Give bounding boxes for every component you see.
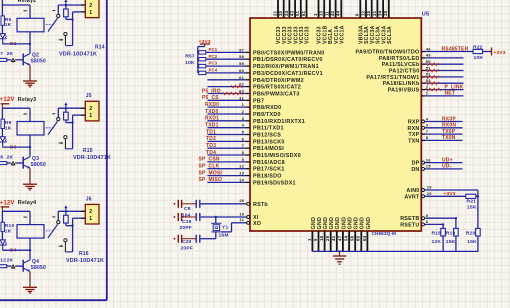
svg-text:18: 18 bbox=[319, 235, 324, 241]
wire Relay3 contact to connector bbox=[73, 115, 86, 149]
svg-text:+3V3: +3V3 bbox=[494, 50, 506, 56]
resistor R9 1K bbox=[1, 108, 12, 136]
U5 bottom pin 58 GND bbox=[350, 217, 360, 251]
svg-text:RS485TER: RS485TER bbox=[442, 46, 469, 52]
svg-text:PB2/RI0X/PWM1/TRAN1: PB2/RI0X/PWM1/TRAN1 bbox=[253, 64, 319, 70]
U5 bottom pin 29 GND bbox=[325, 217, 335, 251]
svg-text:GND: GND bbox=[348, 217, 354, 230]
LED D4 bbox=[0, 240, 17, 254]
svg-text:+12V: +12V bbox=[0, 200, 15, 206]
resistor R10 1K bbox=[1, 211, 14, 239]
svg-text:49: 49 bbox=[426, 53, 431, 58]
svg-text:8: 8 bbox=[426, 135, 429, 140]
svg-text:PB17/SCK1: PB17/SCK1 bbox=[253, 167, 285, 173]
svg-text:RXD1: RXD1 bbox=[205, 116, 219, 122]
relay Relay4 coil bbox=[17, 211, 44, 250]
svg-text:26: 26 bbox=[239, 198, 244, 203]
svg-text:PB6/PWM3/CAT3: PB6/PWM3/CAT3 bbox=[253, 92, 300, 98]
svg-text:R10: R10 bbox=[5, 223, 15, 229]
svg-text:TD4: TD4 bbox=[206, 150, 216, 156]
wire Relay4 contact to connector bbox=[73, 218, 86, 252]
svg-text:2: 2 bbox=[89, 3, 92, 9]
svg-text:Y1: Y1 bbox=[222, 225, 228, 231]
svg-text:R7: R7 bbox=[0, 51, 3, 57]
resistor R22 10K bbox=[473, 44, 492, 61]
transistor Q4 S8050 bbox=[23, 250, 46, 272]
svg-text:2: 2 bbox=[89, 106, 92, 112]
LED D2 bbox=[0, 34, 17, 48]
wire / node TD1 (left row 13) bbox=[206, 129, 245, 135]
U5 top pin 21 VCC33 bbox=[272, 0, 282, 44]
power +12V arrow (Relay2 contact) bbox=[64, 0, 67, 5]
wire GND bus bbox=[312, 250, 478, 252]
U5 top pin 1 VCC33 bbox=[313, 0, 323, 44]
svg-text:DP: DP bbox=[412, 161, 420, 167]
relay Relay4 contact bbox=[46, 211, 73, 252]
wire Relay4 bottom rail bbox=[2, 249, 31, 251]
wire / node SP_CSN (left row 17) bbox=[199, 157, 246, 163]
relay Relay4 label bbox=[18, 200, 37, 206]
wire / node SP_CLK (left row 18) bbox=[199, 164, 246, 170]
svg-text:16: 16 bbox=[426, 157, 431, 162]
svg-text:PA12/CTS0: PA12/CTS0 bbox=[389, 69, 420, 75]
svg-text:R15: R15 bbox=[83, 148, 93, 154]
svg-text:13: 13 bbox=[319, 10, 324, 16]
op-amp U5 CH563Q-M MCU body bbox=[250, 11, 429, 236]
svg-text:TXN: TXN bbox=[408, 138, 419, 144]
svg-text:1: 1 bbox=[89, 216, 92, 222]
U5 bottom pin 1 GND bbox=[307, 217, 317, 251]
ground (emitter of Q4) bbox=[23, 272, 37, 294]
svg-text:CH563Q-M: CH563Q-M bbox=[372, 231, 397, 236]
wire / node TD2 (left row 14) bbox=[206, 136, 245, 142]
svg-text:29: 29 bbox=[325, 235, 330, 241]
svg-text:Relay2: Relay2 bbox=[18, 0, 37, 4]
relay Relay2 contact bbox=[46, 5, 73, 46]
capacitor C8 104 (reset) bbox=[174, 200, 246, 219]
varistor R15 VDR-10D471K bbox=[64, 108, 112, 161]
svg-text:59: 59 bbox=[239, 61, 244, 66]
U5 right pin 53 PA18/ELINKb bbox=[383, 78, 464, 87]
svg-text:1: 1 bbox=[242, 102, 245, 107]
U5 top pin 11 BG1A bbox=[324, 0, 334, 44]
svg-text:2: 2 bbox=[89, 209, 92, 215]
svg-text:R57: R57 bbox=[185, 54, 195, 60]
svg-text:9: 9 bbox=[242, 157, 245, 162]
U5 bottom pin 18 GND bbox=[319, 217, 329, 251]
wire / node PB5 (left row 6) bbox=[208, 85, 246, 88]
U5 right pin 4 RXP net RX0P bbox=[408, 116, 463, 125]
svg-text:15: 15 bbox=[426, 164, 431, 169]
U5 top pin 6 VBG3A bbox=[355, 0, 365, 44]
svg-text:RXN: RXN bbox=[408, 126, 420, 132]
svg-text:5: 5 bbox=[426, 213, 429, 218]
U5 right pin 3 RXN net RX0N bbox=[408, 123, 463, 132]
svg-text:VDR-10D471K: VDR-10D471K bbox=[66, 258, 104, 264]
svg-text:19: 19 bbox=[427, 184, 432, 189]
relay Relay2 contact common rail wire bbox=[58, 4, 85, 6]
svg-text:RXD0: RXD0 bbox=[205, 102, 219, 108]
svg-text:1: 1 bbox=[426, 91, 429, 96]
svg-text:TXD1: TXD1 bbox=[205, 123, 219, 129]
svg-text:PB16/ADC8: PB16/ADC8 bbox=[253, 160, 285, 166]
svg-text:VCC33: VCC33 bbox=[305, 26, 311, 44]
resistor R5 1K bbox=[1, 5, 12, 33]
U5 top pin 38 SCL3A bbox=[383, 0, 393, 44]
svg-text:3: 3 bbox=[426, 123, 429, 128]
U5 left pin 62 PB5 bbox=[239, 82, 301, 91]
svg-text:TX0N: TX0N bbox=[442, 135, 456, 141]
U5 left pin 63 PB6 bbox=[239, 89, 299, 98]
resistor R12 2K (base) bbox=[0, 258, 23, 269]
svg-text:47: 47 bbox=[337, 235, 342, 241]
U5 top pin 34 VCC3A bbox=[378, 0, 388, 44]
resistor R20 15K bbox=[466, 228, 480, 251]
U5 top pin 31 SCL3A bbox=[372, 0, 382, 44]
svg-text:DN: DN bbox=[411, 167, 419, 173]
svg-text:1: 1 bbox=[307, 238, 312, 241]
svg-text:31: 31 bbox=[372, 10, 377, 16]
U5 right pin 50 PA11/SLVCEb bbox=[382, 59, 464, 68]
crystal Y1 16M bbox=[211, 217, 228, 239]
svg-text:P5_IRQ: P5_IRQ bbox=[202, 88, 221, 94]
svg-text:SP_CSN: SP_CSN bbox=[199, 157, 220, 163]
svg-text:R8: R8 bbox=[0, 154, 3, 160]
svg-text:4: 4 bbox=[426, 116, 429, 121]
svg-text:PB9/TXD0: PB9/TXD0 bbox=[253, 112, 281, 118]
U5 left pin 9 PB16 bbox=[242, 157, 285, 166]
svg-text:PB3/DCD0X/CAT1/RECV1: PB3/DCD0X/CAT1/RECV1 bbox=[253, 71, 323, 77]
svg-text:R19: R19 bbox=[446, 231, 456, 237]
svg-text:60: 60 bbox=[239, 68, 244, 73]
svg-text:7: 7 bbox=[242, 143, 245, 148]
U5 right pin 6 RSETU bbox=[400, 219, 444, 228]
svg-text:UD-: UD- bbox=[442, 164, 452, 170]
power +12V arrow (Relay4 contact) bbox=[64, 205, 67, 211]
wire / node TXD0 (left row 10) bbox=[205, 109, 245, 115]
U5 left pin 3 PB10 bbox=[242, 116, 305, 125]
U5 left pin 14 PB19 bbox=[239, 177, 296, 186]
svg-text:46: 46 bbox=[426, 46, 431, 51]
svg-text:PB18/SDO: PB18/SDO bbox=[253, 174, 282, 180]
U5 top pin 30 VCC33 bbox=[278, 0, 288, 44]
U5 bottom pin 54 GND bbox=[344, 217, 354, 251]
U5 right pin 51 PA12/CTS0 bbox=[389, 65, 464, 74]
connector J (Relay2) bbox=[81, 0, 99, 18]
U5 bottom pin 60 GND bbox=[356, 217, 366, 251]
power +12V port bbox=[0, 97, 15, 108]
relay Relay3 contact common rail wire bbox=[58, 107, 85, 109]
svg-text:GND: GND bbox=[366, 217, 372, 230]
relay Relay4 contact common rail wire bbox=[58, 210, 85, 212]
svg-text:PC2: PC2 bbox=[209, 54, 218, 59]
svg-text:2K: 2K bbox=[7, 154, 14, 160]
ground (emitter of Q2) bbox=[23, 65, 37, 87]
U5 left pin 58 PB1 bbox=[239, 54, 322, 63]
svg-text:15K: 15K bbox=[467, 205, 477, 211]
svg-text:S8050: S8050 bbox=[31, 265, 46, 271]
U5 right pin 8 TXN net TX0N bbox=[408, 135, 462, 144]
svg-text:NET: NET bbox=[445, 91, 456, 97]
capacitor C19 20PF bbox=[174, 213, 246, 231]
svg-text:TD2: TD2 bbox=[206, 136, 216, 142]
svg-text:51: 51 bbox=[295, 10, 300, 16]
svg-text:44: 44 bbox=[336, 10, 341, 16]
svg-text:PB4/DTR0X/PWM2: PB4/DTR0X/PWM2 bbox=[253, 78, 304, 84]
svg-text:TD1: TD1 bbox=[206, 129, 216, 135]
svg-text:GND: GND bbox=[354, 217, 360, 230]
U5 right pin 1 NC bbox=[421, 91, 463, 97]
svg-text:11: 11 bbox=[324, 11, 329, 16]
svg-text:SP_MISO: SP_MISO bbox=[199, 177, 223, 183]
wire / node P5_CS (left row 8) bbox=[202, 95, 245, 101]
svg-text:PA19/VBUS: PA19/VBUS bbox=[388, 88, 420, 94]
U5 left pin 12 PB17 bbox=[239, 164, 284, 173]
power +12V port bbox=[0, 200, 15, 211]
svg-text:TXD0: TXD0 bbox=[205, 109, 219, 115]
svg-text:15K: 15K bbox=[467, 239, 477, 245]
sheet border vertical line bbox=[106, 0, 108, 300]
wire Relay2 contact to connector bbox=[73, 12, 86, 46]
svg-text:64: 64 bbox=[362, 235, 367, 241]
U5 top pin 51 VCC33 bbox=[295, 0, 305, 44]
svg-text:6: 6 bbox=[426, 219, 429, 224]
svg-text:7: 7 bbox=[426, 129, 429, 134]
U5 right pin 2 PA19/VBUS bbox=[388, 84, 464, 93]
svg-text:RSETB: RSETB bbox=[400, 216, 419, 222]
svg-text:+3V3: +3V3 bbox=[444, 191, 456, 197]
U5 bottom pin 64 GND bbox=[362, 217, 372, 251]
svg-text:Relay3: Relay3 bbox=[18, 97, 37, 103]
svg-text:PB11/TXD1: PB11/TXD1 bbox=[253, 126, 284, 132]
svg-text:AVRT: AVRT bbox=[404, 194, 420, 200]
svg-text:61: 61 bbox=[301, 10, 306, 16]
svg-text:PB1/DSR0X/CAT0/RECV0: PB1/DSR0X/CAT0/RECV0 bbox=[253, 57, 323, 63]
svg-text:J5: J5 bbox=[86, 93, 92, 99]
resistor R7 2K (base) bbox=[0, 51, 23, 62]
svg-text:C19: C19 bbox=[182, 219, 192, 225]
svg-text:P_LINK: P_LINK bbox=[445, 84, 464, 90]
svg-text:SP_MOSI: SP_MOSI bbox=[199, 170, 223, 176]
svg-text:PB19/SDI/SDX1: PB19/SDI/SDX1 bbox=[253, 180, 296, 186]
svg-text:TX0P: TX0P bbox=[442, 129, 456, 135]
svg-text:C8: C8 bbox=[184, 206, 191, 212]
U5 left pin 59 PB2 bbox=[239, 61, 319, 70]
U5 right pin 46 PA9/DTR0/TNOW0/TDO bbox=[356, 46, 474, 55]
resistor R57.2 element + wire PC2 bbox=[199, 54, 246, 61]
wire / node RXD0 (left row 9) bbox=[205, 102, 245, 108]
svg-text:R22: R22 bbox=[473, 44, 483, 50]
relay Relay2 label bbox=[18, 0, 37, 4]
relay Relay3 label bbox=[18, 97, 37, 103]
svg-text:GND: GND bbox=[317, 217, 323, 230]
svg-text:13: 13 bbox=[239, 171, 244, 176]
U5 top pin 44 VCC1A bbox=[336, 0, 346, 44]
U5 top pin 43 VCC33 bbox=[290, 0, 300, 44]
svg-text:40: 40 bbox=[330, 10, 335, 16]
connector J6 (Relay4) bbox=[81, 196, 99, 224]
svg-text:RSETU: RSETU bbox=[400, 222, 419, 228]
svg-text:10: 10 bbox=[239, 211, 244, 216]
wire AIN0/R21 column bbox=[477, 190, 479, 228]
ground (U5 GND bus) bbox=[333, 251, 346, 264]
wire Relay3 bottom rail bbox=[2, 146, 31, 148]
wire / node TD4 (left row 16) bbox=[206, 150, 245, 156]
svg-text:Relay4: Relay4 bbox=[18, 200, 37, 206]
svg-text:S8050: S8050 bbox=[31, 59, 46, 65]
svg-text:RXP: RXP bbox=[408, 120, 420, 126]
svg-text:6: 6 bbox=[355, 13, 360, 16]
svg-text:R9: R9 bbox=[5, 120, 12, 126]
U5 left pin 7 PB14 bbox=[242, 143, 285, 152]
U5 right pin 16 DP net UD+ bbox=[412, 157, 463, 166]
svg-text:1K: 1K bbox=[5, 22, 12, 28]
U5 bottom pin 47 GND bbox=[337, 217, 347, 251]
svg-text:14: 14 bbox=[239, 177, 244, 182]
relay Relay2 coil bbox=[17, 5, 44, 44]
svg-text:PB5/RTS0X/CAT2: PB5/RTS0X/CAT2 bbox=[253, 85, 301, 91]
svg-text:2K: 2K bbox=[7, 51, 14, 57]
svg-text:41: 41 bbox=[331, 235, 336, 241]
svg-text:XO: XO bbox=[253, 221, 261, 227]
svg-text:11: 11 bbox=[240, 217, 245, 222]
svg-text:RSTb: RSTb bbox=[253, 202, 268, 208]
svg-text:S8050: S8050 bbox=[31, 162, 46, 168]
U5 bottom pin 41 GND bbox=[331, 217, 341, 251]
relay Relay3 contact bbox=[46, 108, 73, 149]
svg-text:31: 31 bbox=[239, 95, 244, 100]
svg-text:28: 28 bbox=[366, 10, 371, 16]
svg-text:12: 12 bbox=[239, 164, 244, 169]
svg-text:12K: 12K bbox=[432, 239, 442, 245]
svg-text:43: 43 bbox=[290, 10, 295, 16]
U5 right pin 20 AVRT + resistor R21 15K bbox=[404, 191, 477, 210]
U5 right pin 15 DN net UD- bbox=[411, 164, 462, 173]
svg-text:GND: GND bbox=[311, 217, 317, 230]
U5 top pin 61 VCC33 bbox=[301, 0, 311, 44]
svg-text:3: 3 bbox=[242, 116, 245, 121]
capacitor C20 20PF bbox=[174, 235, 216, 252]
svg-text:58: 58 bbox=[350, 235, 355, 241]
resistor R57.4 element + wire PC4 bbox=[199, 68, 246, 75]
resistor R19 15K bbox=[446, 218, 458, 251]
wire +12V feed (top, cut) bbox=[1, 0, 3, 5]
ground (emitter of Q3) bbox=[23, 169, 37, 191]
wire / node TD3 (left row 15) bbox=[206, 143, 245, 149]
U5 right pin 19 AIN0 bbox=[406, 184, 477, 194]
relay Relay2 +12V rail wire bbox=[2, 4, 30, 6]
svg-text:34: 34 bbox=[284, 10, 289, 16]
power +3V3 port (R57 pull-ups) bbox=[198, 39, 211, 47]
svg-text:GND: GND bbox=[335, 217, 341, 230]
U5 left pin 10 XI bbox=[239, 211, 258, 221]
U5 top pin 12 SCL3A bbox=[360, 0, 370, 44]
power +3V3 port (R22) bbox=[492, 48, 506, 56]
resistor R18 12K bbox=[432, 224, 446, 251]
U5 left pin 4 PB11 bbox=[242, 123, 284, 132]
svg-text:2K: 2K bbox=[7, 258, 14, 264]
svg-text:1: 1 bbox=[89, 10, 92, 16]
svg-text:PB14/MOSI: PB14/MOSI bbox=[253, 146, 284, 152]
wire / node SP_MOSI (left row 19) bbox=[199, 170, 246, 176]
svg-text:9: 9 bbox=[313, 238, 318, 241]
connector J5 (Relay3) bbox=[81, 93, 99, 121]
svg-text:VDR-10D471K: VDR-10D471K bbox=[73, 155, 111, 161]
svg-text:R18: R18 bbox=[432, 231, 442, 237]
svg-text:VDR-10D471K: VDR-10D471K bbox=[59, 52, 97, 58]
wire / node TXD1 (left row 12) bbox=[205, 123, 245, 129]
wire / node P5_IRQ (left row 7) bbox=[202, 88, 246, 95]
LED D3 bbox=[0, 137, 17, 151]
U5 left pin 6 PB13 bbox=[242, 136, 285, 145]
svg-text:PC1: PC1 bbox=[209, 47, 218, 52]
U5 left pin 2 PB9 bbox=[242, 109, 281, 118]
U5 left pin 11 XO bbox=[240, 217, 262, 227]
svg-text:30: 30 bbox=[278, 10, 283, 16]
svg-text:58: 58 bbox=[239, 54, 244, 59]
svg-text:AIN0: AIN0 bbox=[406, 188, 419, 194]
svg-text:PA9/DTR0/TNOW0/TDO: PA9/DTR0/TNOW0/TDO bbox=[356, 50, 420, 56]
svg-text:TD3: TD3 bbox=[206, 143, 216, 149]
svg-text:R14: R14 bbox=[95, 45, 105, 51]
relay Relay4 +12V rail wire bbox=[2, 210, 30, 212]
svg-text:SCL3A: SCL3A bbox=[387, 26, 393, 44]
relay Relay3 coil bbox=[17, 108, 44, 147]
svg-text:1: 1 bbox=[89, 113, 92, 119]
svg-text:GND: GND bbox=[329, 217, 335, 230]
svg-text:R20: R20 bbox=[466, 231, 476, 237]
svg-text:R16: R16 bbox=[79, 251, 89, 257]
svg-text:GND: GND bbox=[323, 217, 329, 230]
U5 left pin 60 PB3 bbox=[239, 68, 323, 77]
svg-text:PC3: PC3 bbox=[209, 61, 218, 66]
svg-text:20: 20 bbox=[427, 191, 432, 196]
U5 top pin 40 VCC1A bbox=[330, 0, 340, 44]
transistor Q2 S8050 bbox=[23, 44, 46, 66]
U5 left pin 1 PB8 bbox=[242, 102, 282, 111]
svg-text:1: 1 bbox=[313, 13, 318, 16]
resistor R57.3 element + wire PC3 bbox=[199, 61, 246, 68]
U5 left pin 57 PB0 bbox=[239, 47, 324, 56]
svg-text:P5_CS: P5_CS bbox=[202, 95, 219, 101]
svg-text:PA17/RTS1/TNOW1: PA17/RTS1/TNOW1 bbox=[366, 75, 419, 81]
U5 left pin 13 PB18 bbox=[239, 171, 282, 180]
svg-text:R12: R12 bbox=[0, 258, 6, 264]
transistor Q3 S8050 bbox=[23, 147, 46, 169]
svg-text:16M: 16M bbox=[219, 232, 229, 238]
U5 right pin 49 PA8/RTS0/LED bbox=[379, 53, 464, 62]
svg-text:1K: 1K bbox=[5, 228, 12, 234]
svg-text:U5: U5 bbox=[422, 11, 430, 17]
resistor R8 2K (base) bbox=[0, 154, 23, 165]
svg-text:PB0/CTS0X/PWM0/TRAN0: PB0/CTS0X/PWM0/TRAN0 bbox=[253, 50, 325, 56]
U5 bottom pin 9 GND bbox=[313, 217, 323, 251]
svg-text:10K: 10K bbox=[185, 60, 195, 66]
svg-text:1K: 1K bbox=[5, 125, 12, 131]
svg-text:PB7: PB7 bbox=[253, 98, 264, 104]
wire XO to crystal bbox=[221, 223, 246, 232]
svg-text:J6: J6 bbox=[86, 196, 92, 202]
svg-text:GND: GND bbox=[360, 217, 366, 230]
U5 left pin 31 PB7 bbox=[239, 95, 264, 104]
wire / node PB4 (left row 5) bbox=[208, 79, 246, 81]
U5 right pin 52 PA17/RTS1/TNOW1 bbox=[366, 72, 463, 81]
wire / node SP_MISO (left row 20) bbox=[199, 177, 246, 183]
svg-text:15K: 15K bbox=[446, 239, 456, 245]
U5 left pin 8 PB15 bbox=[242, 150, 301, 159]
U5 left pin 26 RSTb bbox=[239, 198, 268, 208]
svg-text:8: 8 bbox=[242, 150, 245, 155]
